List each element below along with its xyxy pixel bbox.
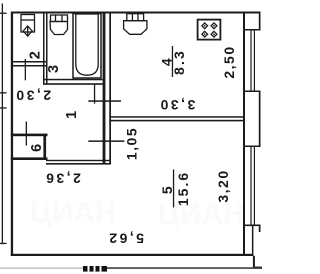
svg-text:2,50: 2,50 bbox=[221, 45, 237, 78]
svg-text:ЦИАН: ЦИАН bbox=[30, 196, 117, 229]
svg-text:1: 1 bbox=[64, 111, 80, 119]
svg-text:3: 3 bbox=[46, 65, 62, 73]
svg-text:1,05: 1,05 bbox=[124, 127, 140, 160]
svg-text:2,36: 2,36 bbox=[44, 170, 81, 186]
svg-text:5,62: 5,62 bbox=[107, 230, 144, 246]
svg-text:5: 5 bbox=[159, 185, 175, 194]
svg-text:3,30: 3,30 bbox=[158, 97, 195, 113]
svg-text:ЦИАН: ЦИАН bbox=[158, 198, 245, 231]
svg-text:8.3: 8.3 bbox=[171, 49, 187, 75]
svg-text:3,20: 3,20 bbox=[215, 169, 231, 202]
svg-text:6: 6 bbox=[29, 144, 45, 152]
svg-text:2: 2 bbox=[28, 51, 44, 59]
svg-text:15.6: 15.6 bbox=[175, 171, 191, 206]
svg-text:2,30: 2,30 bbox=[14, 87, 51, 103]
